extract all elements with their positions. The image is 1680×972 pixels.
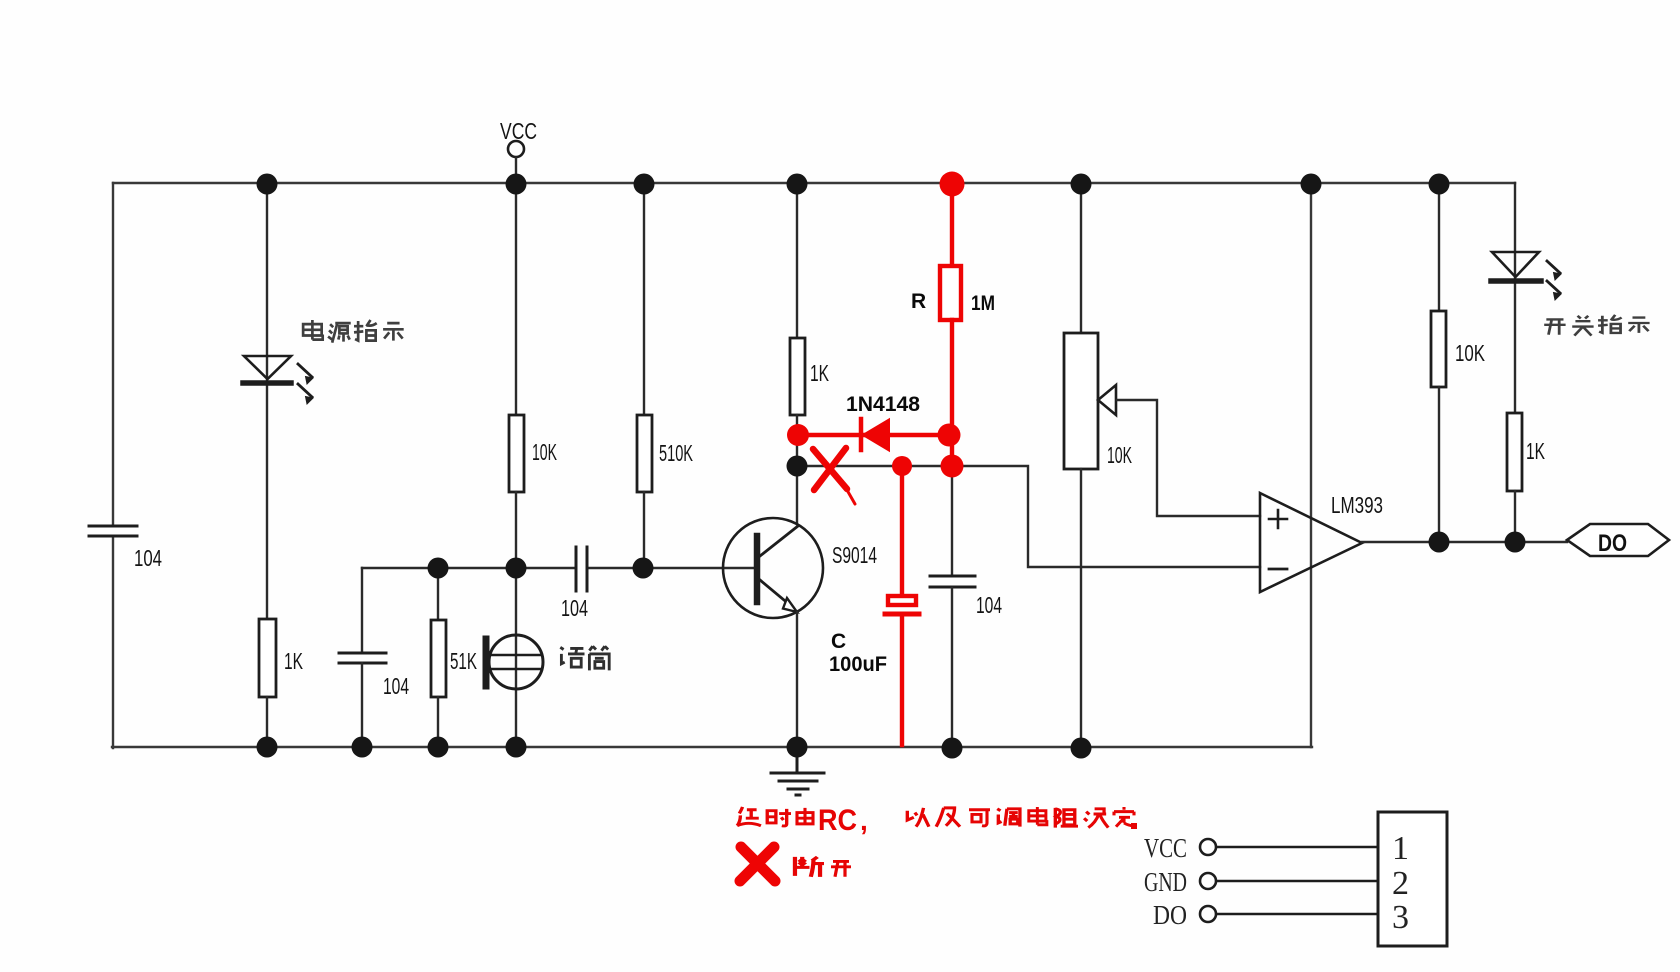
svg-text:2: 2 bbox=[1392, 865, 1409, 902]
node VCC terminal bbox=[508, 141, 524, 183]
svg-text:DO: DO bbox=[1598, 530, 1627, 557]
break mark X small bbox=[813, 448, 855, 504]
junction top rail / 510K bbox=[634, 174, 655, 195]
wire red VCC to R bbox=[950, 184, 954, 266]
junction red minus row / C tap bbox=[892, 456, 912, 476]
svg-text:10K: 10K bbox=[1107, 442, 1132, 468]
junction signal row / mic bbox=[506, 558, 527, 579]
wire left rail vertical bbox=[112, 183, 114, 748]
svg-text:1K: 1K bbox=[284, 648, 303, 674]
wire collector node row y=466 to minus input bbox=[797, 466, 1260, 567]
wire top supply rail bbox=[113, 182, 1515, 184]
label 话筒 (microphone) bbox=[560, 646, 609, 670]
wire signal row y=568 bbox=[362, 567, 754, 569]
junction ground rail / 51K bbox=[428, 737, 449, 758]
resistor 51K bbox=[431, 568, 446, 747]
junction top rail / op-amp V+ bbox=[1301, 174, 1322, 195]
svg-text:RC: RC bbox=[818, 804, 857, 837]
junction ground rail / pot bbox=[1071, 738, 1092, 759]
svg-text:1: 1 bbox=[1392, 830, 1409, 867]
ground symbol bbox=[771, 748, 824, 795]
svg-text:R: R bbox=[911, 290, 926, 313]
potentiometer 10K bbox=[1064, 183, 1260, 747]
wire 104 to ground rail bbox=[361, 663, 363, 747]
connector J1 bbox=[1200, 812, 1447, 946]
junction ground rail / 104 int bbox=[942, 738, 963, 759]
label 开关指示 (switch indicator) bbox=[1544, 315, 1649, 336]
wire red cap branch bbox=[900, 466, 904, 594]
pin VCC circle bbox=[1200, 839, 1216, 855]
junction signal row / 510K bbox=[633, 558, 654, 579]
svg-text:104: 104 bbox=[134, 545, 162, 571]
wire pin2 bbox=[1217, 880, 1378, 883]
junction output / 10K bbox=[1429, 532, 1450, 553]
resistor 10K (mic bias) bbox=[509, 415, 524, 492]
svg-text:1M: 1M bbox=[971, 292, 995, 315]
svg-text:10K: 10K bbox=[532, 439, 557, 465]
svg-text:510K: 510K bbox=[659, 440, 693, 466]
label 电源指示 (power indicator) bbox=[303, 320, 404, 343]
red modification overlay bbox=[740, 184, 961, 881]
junction top rail / 1K collector bbox=[787, 174, 808, 195]
wire 510K to base node bbox=[643, 492, 645, 568]
capacitor C 100uF (red electrolytic) bbox=[885, 596, 919, 745]
wire 510K column upper bbox=[643, 183, 645, 415]
microphone MIC 话筒 bbox=[486, 568, 543, 747]
wire 1K to ground rail bbox=[266, 697, 268, 747]
pin GND circle bbox=[1200, 873, 1216, 889]
wire 1K to collector node bbox=[796, 415, 798, 524]
pin DO circle bbox=[1200, 906, 1216, 922]
capacitor 104 (signal filter) bbox=[339, 653, 386, 663]
svg-text:S9014: S9014 bbox=[832, 542, 877, 568]
wire R to diode node bbox=[950, 320, 954, 435]
component value labels bbox=[134, 118, 1627, 699]
junction top rail / 10K pullup bbox=[1429, 174, 1450, 195]
svg-text:LM393: LM393 bbox=[1331, 492, 1383, 518]
svg-text:1K: 1K bbox=[1526, 438, 1545, 464]
svg-text:1N4148: 1N4148 bbox=[846, 393, 920, 416]
transistor Q1 S9014 bbox=[723, 518, 823, 747]
op-amp plus mark bbox=[1269, 510, 1287, 528]
junction ground rail / mic bbox=[506, 737, 527, 758]
wire pin1 bbox=[1217, 846, 1378, 849]
capacitor 104 (series coupling) bbox=[576, 547, 587, 591]
wire LED1 column upper bbox=[266, 183, 268, 619]
junction red diode / R node bbox=[938, 424, 961, 447]
svg-text:C: C bbox=[831, 630, 846, 653]
svg-text:104: 104 bbox=[383, 673, 409, 699]
LED D2 switch indicator bbox=[1491, 183, 1561, 413]
capacitor 104 (left rail bypass) bbox=[89, 526, 137, 536]
resistor 1K (LED2 series) bbox=[1507, 413, 1522, 491]
svg-text:104: 104 bbox=[561, 595, 588, 621]
svg-text:DO: DO bbox=[1153, 900, 1187, 930]
svg-text:GND: GND bbox=[1144, 867, 1187, 897]
note sentence period bbox=[1131, 823, 1137, 829]
svg-text:VCC: VCC bbox=[1144, 833, 1187, 863]
junction collector node bbox=[787, 456, 808, 477]
junction top rail / VCC bbox=[506, 174, 527, 195]
svg-text:VCC: VCC bbox=[500, 118, 537, 144]
wire diode row bbox=[797, 433, 948, 437]
svg-text:100uF: 100uF bbox=[829, 653, 887, 676]
junction ground rail / emitter bbox=[787, 737, 808, 758]
svg-text:51K: 51K bbox=[450, 648, 477, 674]
svg-text:,: , bbox=[860, 805, 868, 836]
resistor 510K (base bias) bbox=[637, 415, 652, 492]
junction red top rail / R 1M bbox=[940, 172, 965, 197]
wire 10K to signal node bbox=[515, 492, 517, 568]
wire left branch down to 104 bbox=[361, 568, 363, 653]
op-amp U1 LM393 bbox=[1260, 493, 1362, 592]
junction output / 1K LED2 bbox=[1505, 532, 1526, 553]
junction top rail / pot bbox=[1071, 174, 1092, 195]
junction ground rail / LED1 bbox=[257, 737, 278, 758]
junction ground rail / 104 bbox=[352, 737, 373, 758]
resistor R 1M (red) bbox=[940, 266, 961, 320]
junction red diode anode node bbox=[787, 424, 809, 446]
junction top rail / LED1 bbox=[257, 174, 278, 195]
node DO output flag bbox=[1567, 524, 1669, 556]
resistor 1K (LED1 series) bbox=[259, 619, 276, 697]
svg-text:104: 104 bbox=[976, 592, 1002, 618]
svg-text:10K: 10K bbox=[1455, 340, 1485, 366]
wire bottom ground rail bbox=[112, 746, 1312, 748]
op-amp minus mark bbox=[1269, 568, 1287, 571]
wire pin3 bbox=[1217, 913, 1378, 916]
junction signal row / 51K bbox=[428, 558, 449, 579]
svg-text:3: 3 bbox=[1392, 899, 1409, 936]
wire diode node down to minus row bbox=[950, 435, 954, 466]
note 延时由RC，以及可调电阻决定. (red) bbox=[737, 807, 1135, 828]
diode D 1N4148 (red) bbox=[861, 419, 889, 451]
resistor 1K (collector load) bbox=[790, 338, 805, 415]
LED D1 power indicator bbox=[243, 356, 313, 404]
wire 10K column upper bbox=[515, 183, 517, 415]
note RC, and period (red latin) bbox=[818, 804, 868, 837]
wire 1K to output bbox=[1514, 491, 1516, 542]
svg-text:1K: 1K bbox=[810, 360, 829, 386]
wire collector column upper bbox=[796, 183, 798, 338]
wire right vertical V+ through op-amp bbox=[1310, 183, 1312, 747]
note 断开 (break) red bbox=[795, 857, 851, 877]
break mark X large bbox=[740, 847, 775, 881]
junction red minus row / R bbox=[941, 455, 964, 478]
wire op-amp output bbox=[1362, 541, 1567, 543]
resistor 10K (pull-up) bbox=[1431, 183, 1446, 542]
capacitor 104 (integrator) bbox=[930, 466, 975, 747]
